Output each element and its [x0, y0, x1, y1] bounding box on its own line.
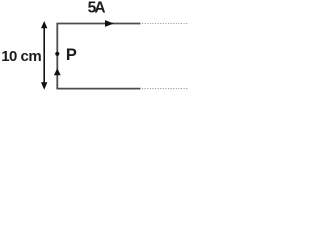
svg-text:P: P [66, 46, 77, 64]
current arrowhead on vertical wire (points up) [54, 68, 61, 75]
wire: dotted continuation bottom [142, 88, 188, 90]
node P dot [55, 52, 59, 56]
background [0, 0, 188, 94]
wire: hairpin conductor (top, left vertical, bottom) [57, 24, 140, 89]
wire: dotted continuation top [142, 23, 188, 25]
svg-text:10 cm: 10 cm [1, 48, 42, 65]
svg-text:5A: 5A [88, 0, 106, 17]
dimension arrow shaft (10 cm) [43, 26, 45, 85]
dimension arrowhead down [41, 82, 47, 90]
current arrowhead on top wire (points right) [105, 20, 114, 27]
dimension arrowhead up [41, 21, 47, 28]
